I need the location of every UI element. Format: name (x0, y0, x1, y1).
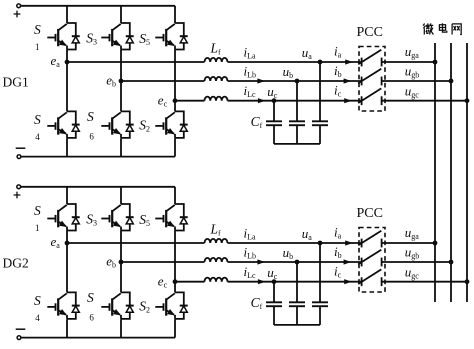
DG1 DC+ terminal (17, 4, 21, 8)
DG2 minus label (16, 328, 26, 330)
capacitor Cf phase b DG1 (289, 121, 305, 125)
DG1 plus label (14, 11, 21, 18)
DG1 top DC rail wire (21, 5, 175, 7)
wire uc down to capacitor DG1 (273, 101, 275, 122)
IGBT S4 DG1 (34, 111, 80, 142)
svg-text:6: 6 (89, 132, 94, 142)
DG1 leg2 bottom wire (120, 138, 122, 156)
inductor Lf phase a DG1 (205, 58, 228, 62)
node ec DG1 (158, 92, 178, 108)
svg-text:1: 1 (35, 223, 40, 233)
DG2 leg1 mid wire (66, 231, 68, 243)
DG1 leg3 bottom wire (174, 138, 176, 156)
DG2 leg1 bottom wire (66, 319, 68, 337)
DG1 leg3 mid wire (174, 50, 176, 101)
inductor Lf phase a DG2 (205, 239, 228, 243)
ic current label + arrow DG1 (334, 83, 352, 104)
wire uc down to capacitor DG2 (273, 282, 275, 303)
wire capacitor a to neutral bus DG2 (319, 306, 321, 325)
microgrid bus c wire (466, 43, 468, 302)
DG2 leg3 lower mid wire (174, 282, 176, 293)
ib current label + arrow DG2 (334, 244, 351, 265)
DG1 leg2 mid wire (120, 50, 122, 81)
wire phase a to PCC DG1 (228, 61, 362, 63)
wire ugb to grid bus DG2 (382, 261, 451, 263)
wire phase c to PCC DG2 (228, 281, 362, 283)
svg-text:S: S (87, 109, 94, 124)
microgrid bus a wire (434, 43, 436, 302)
capacitor Cf phase b DG2 (289, 302, 305, 306)
inductor Lf phase c DG1 (205, 97, 228, 101)
svg-text:S: S (87, 290, 94, 305)
inductor Lf phase c DG2 (205, 278, 228, 282)
wire capacitor c to neutral bus DG1 (273, 125, 275, 144)
IGBT S4 DG2 (34, 292, 80, 323)
DG2 leg2 mid wire (120, 231, 122, 262)
node ea DG1 (51, 53, 70, 69)
svg-text:4: 4 (35, 313, 40, 323)
IGBT S1 DG2 (34, 203, 80, 233)
svg-text:DG2: DG2 (3, 255, 29, 270)
wire ub down to capacitor DG1 (296, 81, 298, 121)
DG2 plus label (14, 192, 21, 199)
wire uga to grid bus DG1 (382, 61, 435, 63)
node eb DG2 (106, 254, 123, 270)
microgrid label 微电网 (423, 23, 461, 34)
wire capacitor a to neutral bus DG1 (319, 125, 321, 144)
DG2 leg1 upper wire (66, 187, 68, 204)
DG2 leg2 bottom wire (120, 319, 122, 337)
IGBT S1 DG1 (34, 22, 80, 52)
wire phase b to filter DG1 (121, 80, 205, 82)
svg-text:S: S (34, 203, 41, 218)
DG2 bottom DC rail wire (21, 337, 175, 339)
DG1 leg2 upper wire (120, 6, 122, 23)
node grid connection b DG2 (449, 260, 454, 265)
wire ugc to grid bus DG2 (382, 281, 467, 283)
inductor Lf phase b DG1 (205, 77, 228, 81)
DG1 leg3 upper wire (174, 6, 176, 23)
IGBT S5 DG2 (139, 204, 188, 231)
wire ugc to grid bus DG1 (382, 100, 467, 102)
capacitor Cf phase c DG1 (266, 121, 282, 125)
node grid connection c DG1 (465, 98, 470, 103)
svg-text:S: S (34, 112, 41, 127)
microgrid bus b wire (450, 43, 452, 302)
svg-text:PCC: PCC (357, 25, 383, 40)
breaker switch phase c DG2 (358, 269, 381, 286)
DG1 bottom DC rail wire (21, 156, 175, 158)
node ub DG2 (283, 245, 300, 265)
DG2 leg3 upper wire (174, 187, 176, 204)
DG1 leg1 upper wire (66, 6, 68, 23)
wire phase c to filter DG1 (175, 100, 205, 102)
node grid connection b DG1 (449, 79, 454, 84)
DG2 DC- terminal (17, 336, 21, 340)
wire phase c to PCC DG1 (228, 100, 362, 102)
breaker switch phase a DG1 (358, 50, 381, 67)
IGBT S3 DG2 (86, 204, 134, 231)
iLc current label + arrow DG2 (244, 264, 266, 284)
DG1 leg1 bottom wire (66, 138, 68, 156)
wire capacitor b to neutral bus DG1 (296, 125, 298, 144)
breaker switch phase a DG2 (358, 231, 381, 248)
svg-text:PCC: PCC (357, 206, 383, 221)
DG1 leg3 lower mid wire (174, 101, 176, 112)
inductor Lf phase b DG2 (205, 258, 228, 262)
IGBT S6 DG2 (87, 290, 134, 322)
capacitor Cf phase a DG1 (312, 121, 328, 125)
DG1 DC- terminal (17, 155, 21, 159)
wire ua down to capacitor DG1 (319, 62, 321, 121)
capacitor Cf phase c DG2 (266, 302, 282, 306)
wire phase a to filter DG2 (67, 242, 205, 244)
iLb current label + arrow DG1 (244, 63, 266, 83)
node grid connection a DG2 (433, 241, 438, 246)
capacitor neutral bus wire DG1 (274, 143, 320, 145)
DG1 leg2 lower mid wire (120, 81, 122, 111)
ib current label + arrow DG1 (334, 63, 351, 84)
iLb current label + arrow DG2 (244, 244, 266, 264)
wire phase a to filter DG1 (67, 61, 205, 63)
DG2 leg3 mid wire (174, 231, 176, 282)
svg-text:DG1: DG1 (3, 74, 29, 89)
wire phase b to filter DG2 (121, 261, 205, 263)
IGBT S2 DG1 (139, 111, 188, 137)
node uc DG2 (267, 265, 278, 284)
DG2 leg1 lower mid wire (66, 243, 68, 292)
breaker switch phase b DG2 (358, 250, 381, 267)
node eb DG1 (106, 73, 123, 89)
wire ub down to capacitor DG2 (296, 262, 298, 302)
svg-text:S: S (34, 293, 41, 308)
wire ua down to capacitor DG2 (319, 243, 321, 302)
IGBT S6 DG1 (87, 109, 134, 141)
PCC dashed box DG2 (359, 228, 385, 293)
PCC dashed box DG1 (359, 47, 385, 112)
svg-text:S: S (34, 22, 41, 37)
DG2 leg2 lower mid wire (120, 262, 122, 292)
node ua DG1 (302, 45, 323, 64)
node grid connection a DG1 (433, 60, 438, 65)
wire phase c to filter DG2 (175, 281, 205, 283)
capacitor Cf phase a DG2 (312, 302, 328, 306)
svg-text:4: 4 (35, 132, 40, 142)
DG1 leg1 lower mid wire (66, 62, 68, 111)
DG2 top DC rail wire (21, 186, 175, 188)
wire uga to grid bus DG2 (382, 242, 435, 244)
DG2 leg2 upper wire (120, 187, 122, 204)
breaker switch phase c DG1 (358, 88, 381, 105)
DG1 leg1 mid wire (66, 50, 68, 62)
wire capacitor b to neutral bus DG2 (296, 306, 298, 325)
svg-text:1: 1 (35, 42, 40, 52)
DG2 leg3 bottom wire (174, 319, 176, 337)
node grid connection c DG2 (465, 279, 470, 284)
IGBT S3 DG1 (86, 23, 134, 50)
node ec DG2 (158, 273, 178, 289)
node uc DG1 (267, 84, 278, 103)
DG1 minus label (16, 147, 26, 149)
ia current label + arrow DG1 (334, 43, 353, 64)
wire ugb to grid bus DG1 (382, 80, 451, 82)
capacitor neutral bus wire DG2 (274, 324, 320, 326)
DG2 DC+ terminal (17, 185, 21, 189)
iLc current label + arrow DG1 (244, 83, 266, 103)
IGBT S2 DG2 (139, 292, 188, 319)
svg-text:6: 6 (89, 313, 94, 323)
node ea DG2 (51, 234, 70, 250)
node ub DG1 (283, 64, 300, 84)
wire capacitor c to neutral bus DG2 (273, 306, 275, 325)
node ua DG2 (302, 226, 323, 245)
breaker switch phase b DG1 (358, 69, 381, 86)
ia current label + arrow DG2 (334, 224, 353, 245)
ic current label + arrow DG2 (334, 264, 352, 285)
wire phase b to PCC DG1 (228, 80, 362, 82)
IGBT S5 DG1 (139, 23, 188, 50)
wire phase a to PCC DG2 (228, 242, 362, 244)
wire phase b to PCC DG2 (228, 261, 362, 263)
